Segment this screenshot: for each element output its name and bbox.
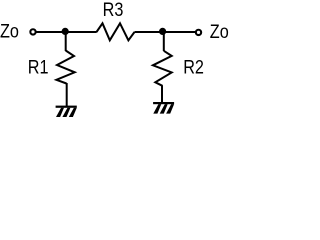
wire: node A to R3 [65,31,97,33]
node B junction dot [159,28,166,35]
svg-text:Zo: Zo [210,21,229,43]
resistor R2 label [183,56,204,78]
svg-text:R2: R2 [183,56,204,78]
wire: node B down to R2 [163,31,165,51]
resistor R1 (shunt zigzag) [56,51,74,84]
terminal T2 (right open circle) [196,30,201,35]
node Zo (right) label [210,21,229,43]
resistor R3 label [103,0,124,20]
svg-text:R3: R3 [103,0,124,20]
wire: node A down to R1 [65,31,67,51]
resistor R3 (series zigzag) [97,23,135,40]
wire: left terminal to node A [36,31,65,33]
svg-text:R1: R1 [28,56,49,78]
wire: R2 down to ground [161,85,163,103]
node A junction dot [62,28,69,35]
ground (left) [56,106,77,117]
wire: R1 down to ground [66,83,68,107]
resistor R2 (shunt zigzag) [153,51,172,86]
resistor R1 label [28,56,49,78]
node Zo (left) label [0,20,19,42]
svg-text:Zo: Zo [0,20,19,42]
terminal T1 (left open circle) [30,29,35,34]
ground (right) [153,102,174,114]
wire: R3 to node B [135,31,164,33]
wire: node B to right terminal [163,31,196,33]
